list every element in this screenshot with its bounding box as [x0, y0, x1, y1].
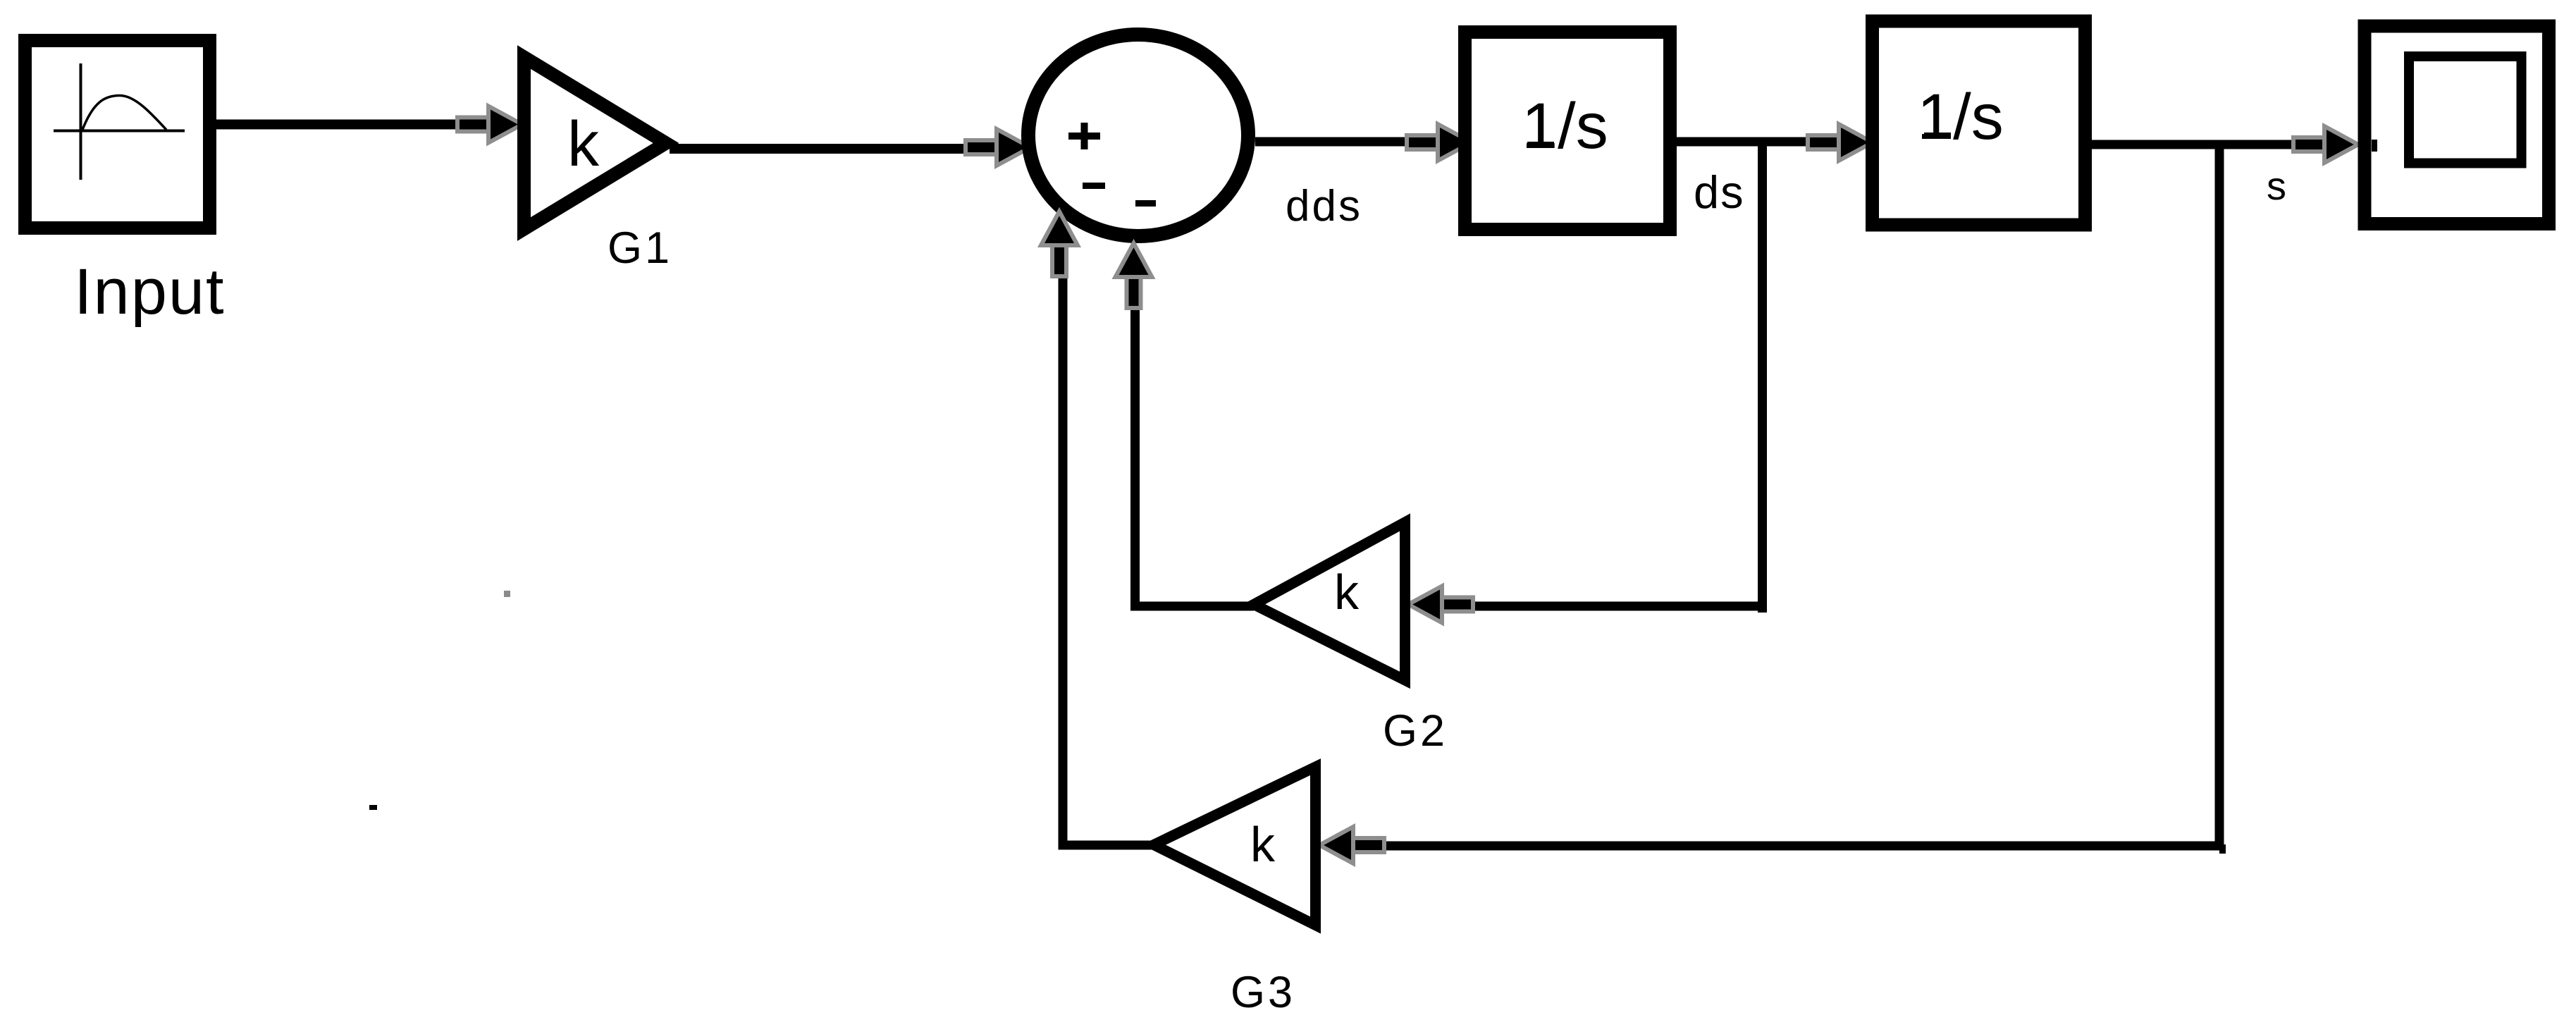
svg-text:k: k: [1250, 817, 1276, 872]
svg-text:G1: G1: [608, 223, 672, 273]
integrator block 1: [1465, 32, 1670, 230]
integrator block 2: [1873, 21, 2085, 225]
gain G3: [1154, 767, 1316, 925]
arrowhead into integrator2: [1808, 124, 1873, 161]
source block Input: [25, 41, 210, 228]
wire integrator1 to integrator2: [1677, 137, 1843, 147]
arrowhead G2 into sum: [1116, 243, 1152, 308]
svg-text:1/s: 1/s: [1917, 81, 2004, 153]
junction tap s to G3: [2219, 844, 2226, 854]
gain G2: [1254, 522, 1405, 680]
svg-text:s: s: [2267, 164, 2286, 208]
wire G1 to sum: [670, 144, 995, 154]
minus sign (G3 input): [1083, 183, 1105, 189]
arrowhead into scope: [2293, 126, 2358, 163]
arrowhead into integrator1: [1407, 124, 1472, 161]
plus sign: [1068, 123, 1100, 149]
wire G3 tip to sum (up): [1063, 261, 1154, 845]
wire sum to integrator1: [1255, 137, 1441, 147]
junction tap ds to G2: [1466, 140, 1763, 606]
stray gray dot: [504, 591, 510, 597]
arrowhead into G2: [1408, 586, 1473, 623]
wire integrator2 to scope: [2092, 140, 2329, 149]
scope block: [2365, 26, 2549, 224]
minus sign (G2 input): [1135, 200, 1156, 207]
arrowhead into sum: [966, 129, 1030, 166]
wire Input to G1: [216, 120, 479, 130]
wire G2 corner nub: [1758, 605, 1767, 613]
svg-text:1/s: 1/s: [1522, 90, 1608, 162]
svg-text:Input: Input: [74, 256, 226, 328]
svg-text:ds: ds: [1694, 166, 1745, 218]
svg-text:G2: G2: [1383, 706, 1448, 756]
svg-text:G3: G3: [1231, 968, 1295, 1015]
svg-text:k: k: [1334, 565, 1360, 620]
svg-text:dds: dds: [1286, 182, 1362, 230]
svg-text:k: k: [567, 109, 600, 180]
stray black dash: [369, 805, 377, 810]
wire G2 tip to sum (up): [1135, 282, 1255, 606]
arrowhead G3 into sum: [1041, 211, 1078, 276]
summing junction: [1028, 35, 1248, 236]
arrowhead into G3: [1319, 827, 1384, 863]
gain G1: [524, 57, 667, 229]
arrowhead into G1: [457, 106, 522, 143]
